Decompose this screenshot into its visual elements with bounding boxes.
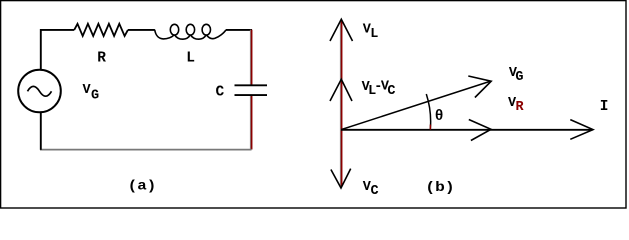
svg-text:R: R [516, 100, 525, 115]
capacitor C [235, 84, 268, 86]
svg-text:C: C [371, 184, 379, 199]
wire bottom (grey) [40, 149, 252, 151]
wire right side (upper, red) [249, 30, 251, 85]
wire inductor-to-corner [226, 29, 252, 31]
svg-text:L: L [186, 51, 195, 67]
svg-text:L: L [370, 27, 378, 42]
wire resistor-to-inductor [128, 29, 155, 31]
arrowhead V_G (diagonal) [468, 76, 491, 98]
arrowhead V_L-V_C (middle) [330, 79, 352, 101]
svg-text:θ: θ [435, 109, 444, 125]
wire right side (lower, red) [249, 96, 251, 150]
AC source V_G [18, 70, 61, 113]
svg-text:R: R [97, 51, 106, 67]
svg-text:G: G [515, 70, 523, 85]
svg-text:I: I [600, 99, 609, 115]
resistor R [74, 24, 128, 36]
arrowhead I (end of horizontal) [570, 120, 593, 140]
svg-text:C: C [216, 84, 225, 100]
inductor L [155, 24, 226, 39]
red tick at arc base [429, 125, 431, 130]
arrowhead V_C (bottom) [331, 169, 351, 188]
phasor V_G diagonal line [342, 82, 490, 130]
angle arc theta [426, 94, 430, 130]
arrowhead V_R (mid of horizontal) [469, 120, 491, 141]
vertical phasor line (red) [339, 20, 341, 186]
svg-text:(a): (a) [128, 179, 156, 194]
svg-text:C: C [387, 84, 395, 99]
wire top-left segment [41, 30, 74, 69]
wire bottom-left vertical [40, 113, 42, 150]
arrowhead V_L (top) [330, 19, 353, 41]
svg-text:G: G [91, 89, 99, 104]
phasor I horizontal line [341, 129, 593, 131]
sine symbol [28, 86, 52, 96]
svg-text:(b): (b) [425, 181, 454, 195]
